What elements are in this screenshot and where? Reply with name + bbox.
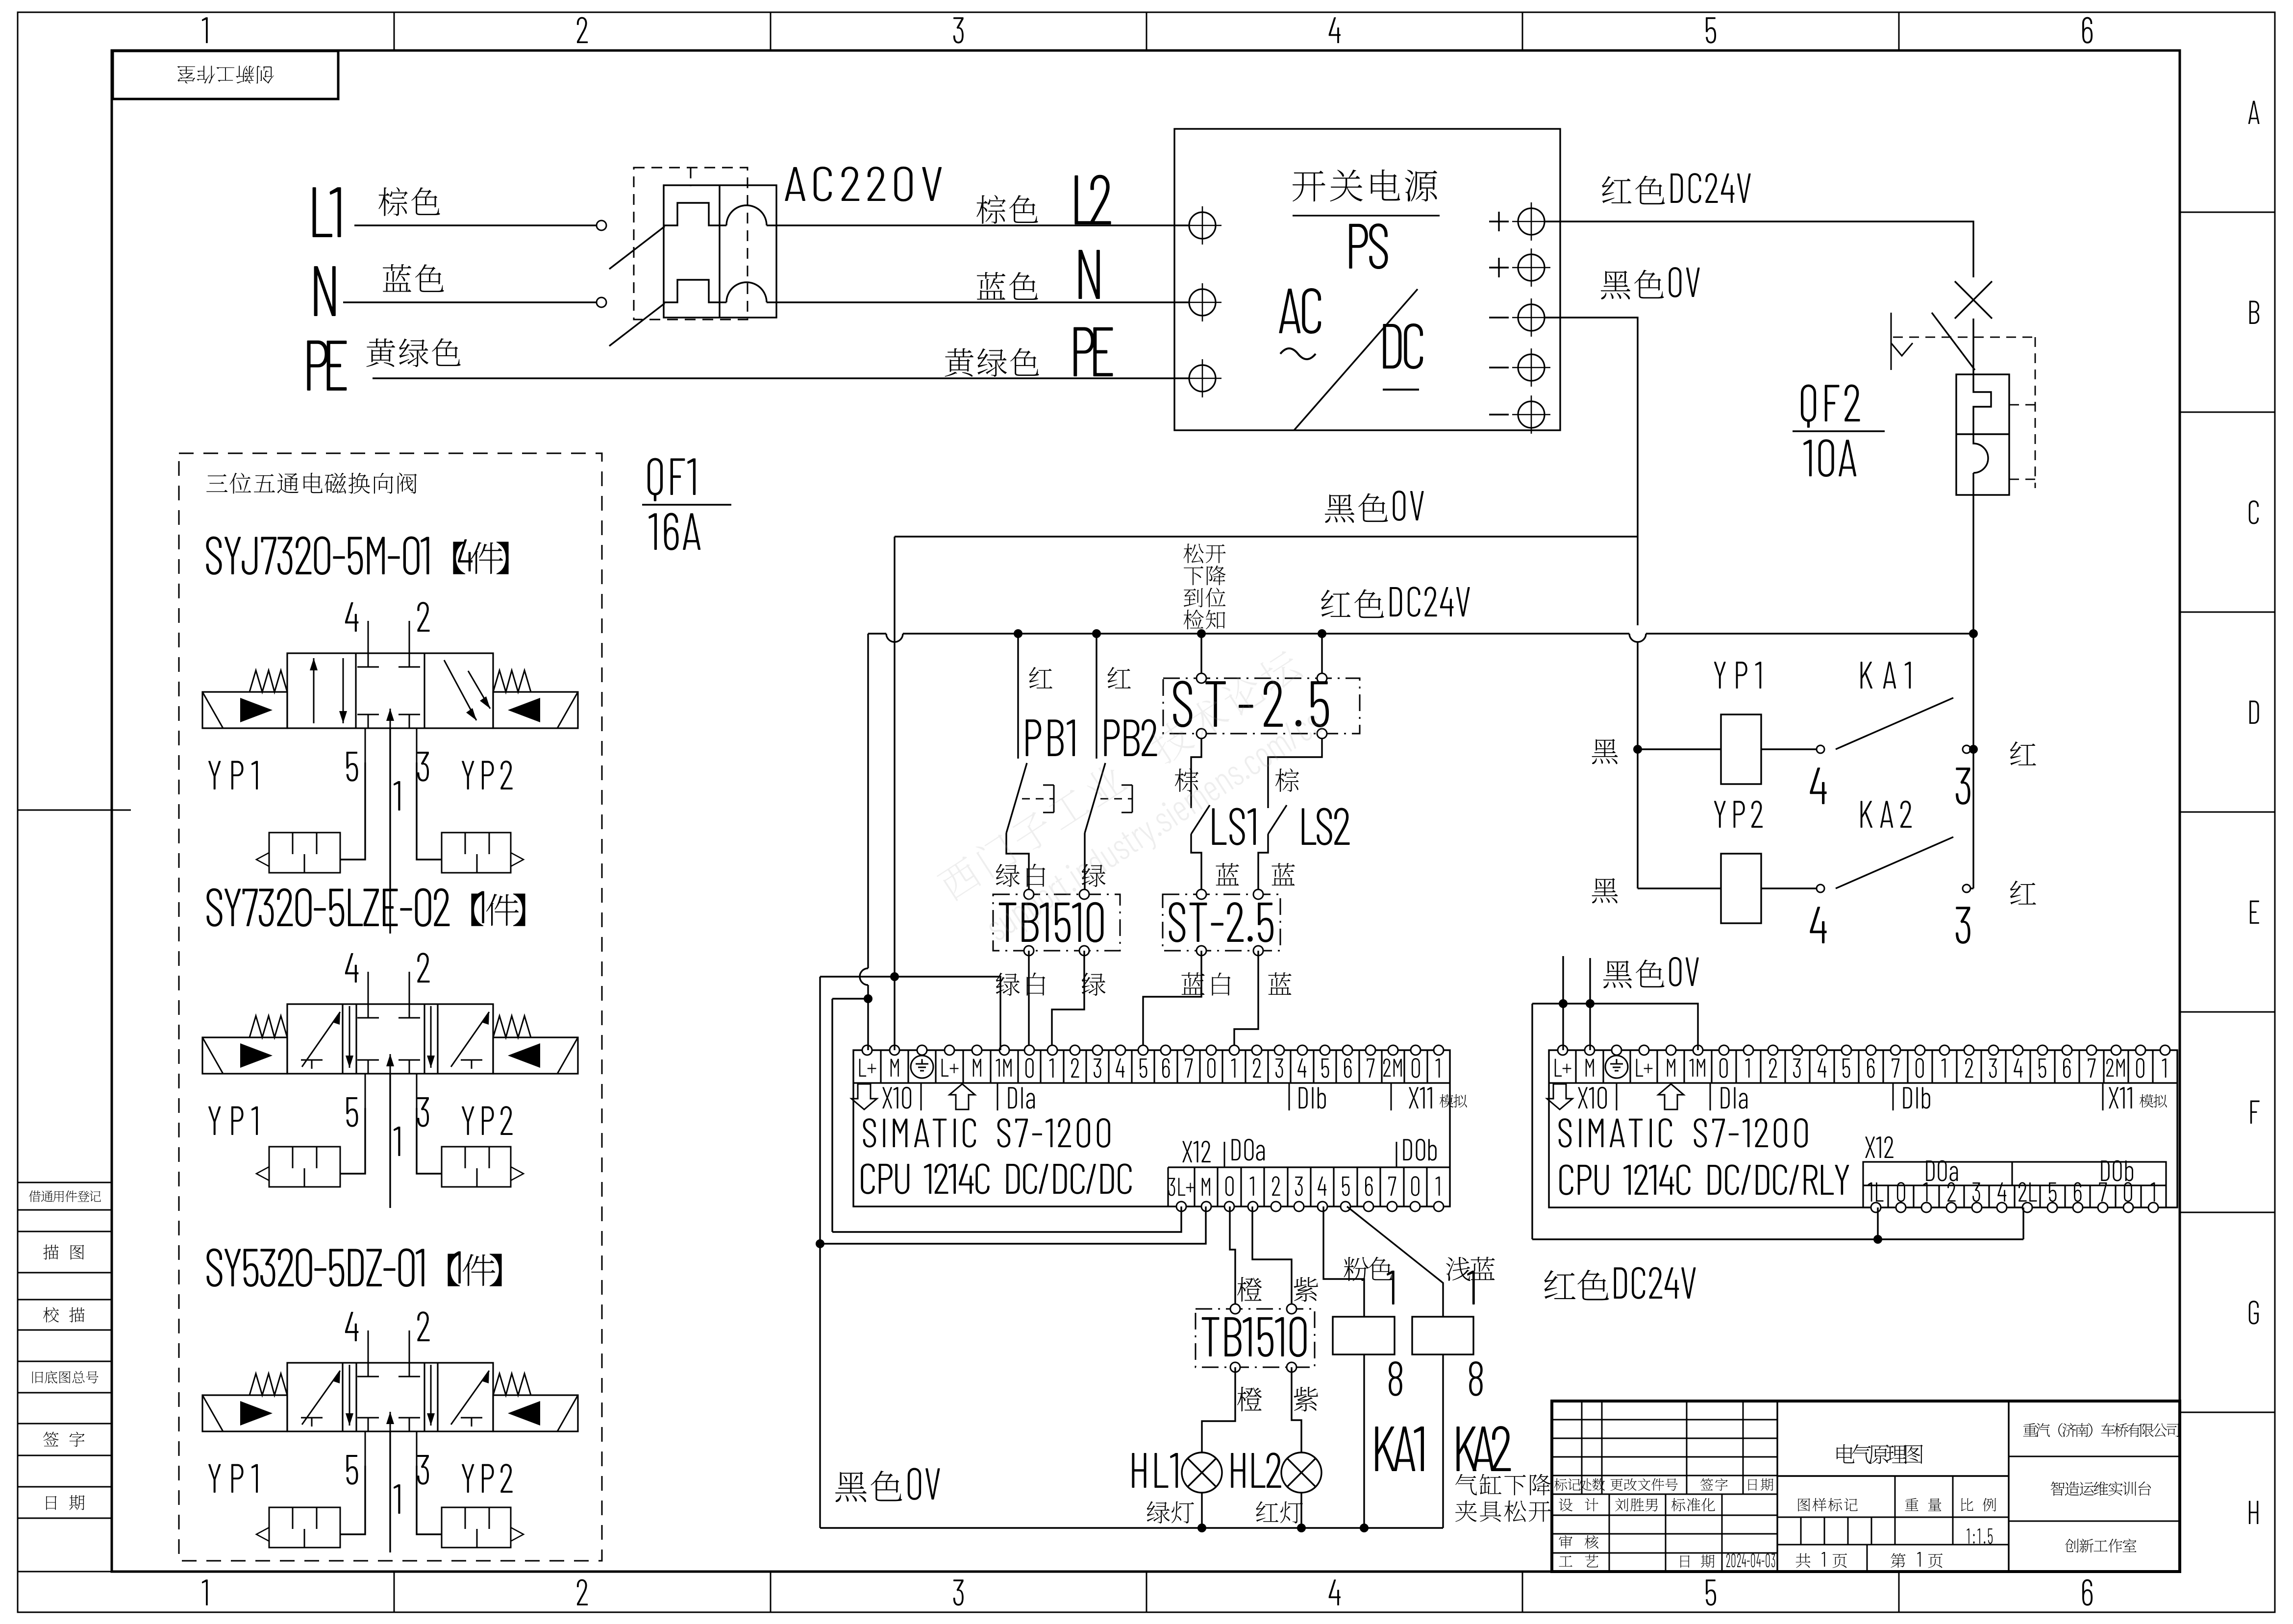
breaker QF1 input terminal N bbox=[597, 297, 606, 307]
wire 0V to U2 1M bbox=[1532, 1004, 1698, 1050]
wire DOa5 to relay KA2 diagonal bbox=[1347, 1206, 1443, 1317]
valve main boxes bbox=[287, 653, 493, 728]
valve solenoid left bbox=[202, 1395, 287, 1431]
valve solenoid right bbox=[493, 1395, 578, 1431]
valve pilot connections bbox=[340, 1108, 365, 1174]
labels light-blue 1 bbox=[1446, 1257, 1471, 1281]
valve pilot box left bbox=[269, 833, 340, 873]
breaker QF1 magnetic element pole2 bbox=[726, 282, 767, 302]
breaker QF1 blade pole1 bbox=[609, 226, 665, 269]
valve right box flow arrows bbox=[444, 660, 476, 720]
label red DC24V bottom right bbox=[1544, 1270, 1575, 1299]
node N label at PS bbox=[1078, 250, 1099, 299]
wire DOa1 to TB1510 bottom right bbox=[1252, 1206, 1292, 1309]
wire M feed (vertical B) bbox=[894, 956, 895, 1050]
node PE label bbox=[307, 341, 328, 391]
wire L1 brown bbox=[354, 224, 597, 226]
wire PB1 drop + label red bbox=[1017, 634, 1019, 759]
valve group dashed enclosure bbox=[179, 453, 602, 1561]
wire 0V bottom rail bbox=[820, 1527, 1443, 1528]
label column 松开下降到位检知 bbox=[1183, 543, 1203, 563]
node N label bbox=[314, 266, 336, 316]
label black 0V top bbox=[1601, 271, 1631, 299]
label black 0V mid bbox=[1325, 494, 1355, 522]
PLC U2 X10 label row bbox=[1547, 1084, 1572, 1109]
left margin fold mark bbox=[18, 810, 131, 811]
valve pilot box right bbox=[442, 833, 511, 873]
PS title 开关电源 / PS bbox=[1293, 171, 1325, 201]
wire TB1510 to DIa1 bbox=[1052, 951, 1084, 1050]
valve pilot box right bbox=[442, 1147, 511, 1187]
limit switch LS2 bbox=[1268, 738, 1322, 808]
breaker QF1 magnetic element pole1 bbox=[726, 205, 767, 225]
breaker QF2 element box bbox=[1956, 374, 2009, 495]
PLC U1 X12 / DOa / DOb labels bbox=[1182, 1141, 1192, 1162]
breaker QF1 thermal element pole1 bbox=[664, 203, 720, 225]
relay row YP2/KA2 bbox=[1638, 887, 1721, 889]
wire 0V down-left bbox=[894, 537, 895, 956]
valve pilot connections bbox=[340, 763, 365, 860]
breaker QF2 thermal profile bbox=[1973, 374, 1991, 434]
breaker QF1 dashed enclosure bbox=[634, 168, 748, 320]
wire red rail to ST upper pins bbox=[1200, 634, 1202, 673]
relay row YP1/KA1 bbox=[1638, 748, 1721, 750]
valve spring left bbox=[249, 670, 287, 692]
limit switch LS1 bbox=[1191, 738, 1201, 808]
relay coil KA2 bbox=[1412, 1317, 1473, 1354]
wire +24V to QF2 bbox=[1545, 221, 1973, 277]
wire L2 brown bbox=[776, 224, 1189, 226]
breaker QF1 blade pole2 bbox=[609, 303, 665, 346]
wire 3L+ loop bbox=[832, 1206, 1181, 1232]
power supply PS box bbox=[1174, 129, 1560, 430]
title block signature rows bbox=[1552, 1515, 1777, 1516]
PLC U1 X12 output strip bbox=[1168, 1166, 1450, 1168]
valve pilot box left bbox=[269, 1147, 340, 1187]
junction dots on red rail bbox=[1014, 629, 1022, 638]
valve YP labels bbox=[208, 761, 221, 789]
labels green white green above TB1510 bbox=[996, 864, 1020, 887]
breaker QF1 contact box bbox=[664, 185, 776, 318]
left margin label boxes bbox=[18, 1182, 112, 1210]
labels blue above ST lower bbox=[1216, 863, 1239, 886]
label QF2 / 10A bbox=[1801, 385, 1816, 428]
wire red DC24V rail with hops bbox=[868, 633, 886, 634]
terminal block TB1510 mid bbox=[993, 894, 1120, 951]
wire QF2 down to DC24V rail bbox=[1972, 495, 1974, 634]
terminal block TB1510 bottom bbox=[1196, 1309, 1315, 1367]
zone number strip bottom bbox=[394, 1572, 395, 1612]
valve pilot box right bbox=[442, 1507, 511, 1548]
valve YP labels bbox=[208, 1464, 221, 1493]
title block revision rows bbox=[1552, 1419, 1777, 1421]
PLC U2 terminal row bbox=[1549, 1082, 2177, 1083]
PS DC label bbox=[1383, 324, 1401, 369]
wire QF2 vertical to rows bbox=[1972, 634, 1974, 888]
valve solenoid left bbox=[202, 1037, 287, 1074]
valve ports 4 2 top bbox=[368, 621, 369, 653]
PS AC/DC separator bbox=[1294, 289, 1418, 430]
PS polarity signs bbox=[1489, 221, 1509, 222]
wire ST lower to DIb1 bbox=[1234, 951, 1258, 1050]
node L2 label bbox=[1074, 175, 1094, 224]
pushbutton PB2 bbox=[1104, 719, 1120, 756]
labels green white green below TB1510 bbox=[996, 973, 1020, 996]
breaker QF1 thermal element pole2 bbox=[664, 280, 720, 302]
valve left box flow arrows bbox=[313, 658, 315, 723]
zone letter strip right bbox=[2180, 212, 2275, 213]
PLC U2 model text bbox=[1559, 1118, 1572, 1148]
wire DOa4 to relay KA1 bbox=[1323, 1206, 1364, 1317]
PS AC~ label bbox=[1279, 289, 1300, 333]
valve inter-wall down arrows bbox=[349, 1006, 350, 1068]
watermark bbox=[935, 646, 1339, 957]
valve right box flow arrow diag bbox=[451, 1012, 489, 1067]
breaker QF2 magnetic profile bbox=[1973, 434, 1988, 473]
PLC U1 terminal row bbox=[853, 1082, 1450, 1083]
wire L+ feed (vertical A) with hop bbox=[867, 634, 869, 968]
valve ports 5 1 3 bottom bbox=[365, 728, 366, 763]
valve port1 up arrow bbox=[390, 1412, 391, 1431]
valve left box flow arrow diag bbox=[302, 1012, 340, 1067]
valve YP labels bbox=[208, 1107, 221, 1135]
labels blue white blue below ST lower bbox=[1181, 972, 1204, 995]
valve middle box blocked ports bbox=[368, 653, 369, 667]
label AC220V bbox=[785, 167, 805, 201]
valve V2 model SY7320-5LZE-02 bbox=[206, 888, 222, 927]
title block outer bbox=[1552, 1401, 2180, 1572]
lamp HL1 bbox=[1132, 1453, 1146, 1488]
label red DC24V mid bbox=[1321, 590, 1350, 616]
label black 0V above U2 bbox=[1603, 960, 1632, 988]
valve solenoid left bbox=[202, 692, 287, 728]
PLC U1 model text bbox=[863, 1118, 876, 1148]
wire black 0V rail bbox=[895, 536, 1638, 537]
PLC U1 SIMATIC S7-1200 DC/DC/DC body bbox=[853, 1050, 1450, 1206]
lamp HL2 bbox=[1231, 1453, 1245, 1488]
breaker QF2 blade bbox=[1932, 313, 1975, 370]
valve middle box blocked ports bbox=[368, 1004, 369, 1018]
wire X12 M to 0V bbox=[820, 1206, 1206, 1244]
labels pink 1 bbox=[1344, 1257, 1369, 1281]
valve main boxes bbox=[287, 1004, 493, 1074]
valve V1 model SYJ7320-5M-01 bbox=[206, 537, 222, 575]
breaker QF2 dashed linkage bbox=[1893, 337, 2035, 338]
valve solenoid right bbox=[493, 1037, 578, 1074]
wire PE yellow-green bbox=[373, 377, 1189, 379]
PLC U1 X10 label row bbox=[851, 1084, 877, 1109]
relay coil KA1 bbox=[1333, 1317, 1395, 1354]
breaker QF2 actuator bbox=[1891, 313, 1892, 370]
wire 0V vertical right bbox=[1637, 537, 1638, 625]
wire U2 bottom rail to 1L/2L bbox=[1532, 1238, 2023, 1240]
valve spring right bbox=[493, 670, 531, 692]
valve spring left bbox=[249, 1374, 287, 1395]
valve right box flow arrow diag bbox=[451, 1371, 489, 1425]
wire PB2 drop + label red bbox=[1096, 634, 1097, 759]
label black 0V bottom left bbox=[835, 1472, 867, 1502]
title box top-left (rotated 创新工作室) bbox=[113, 51, 338, 99]
wire TB1510 to DIa0 bbox=[1028, 951, 1029, 1050]
valve left box flow arrow diag bbox=[302, 1371, 340, 1425]
wire to 3L+ horizontal2 bbox=[832, 998, 868, 999]
wire 0V horizontal to 1M bbox=[820, 977, 1000, 1050]
PS terminals R bbox=[1518, 208, 1545, 235]
valve ports 4 2 top bbox=[368, 1330, 369, 1363]
terminal block ST-2.5 upper bbox=[1163, 678, 1360, 734]
PS terminal L bbox=[1189, 212, 1216, 239]
valve ports 5 1 3 bottom bbox=[365, 1431, 366, 1466]
wire U2 left loop down bbox=[1531, 1004, 1533, 1239]
valve port1 up arrow bbox=[390, 709, 391, 728]
breaker QF1 input terminal L1 bbox=[597, 221, 606, 230]
title block middle section bbox=[1777, 1475, 2009, 1476]
wire DOa0 to TB1510 bottom bbox=[1230, 1206, 1235, 1309]
valve ports 4 2 top bbox=[368, 972, 369, 1004]
title block company section bbox=[2009, 1456, 2180, 1457]
valve V1 title bbox=[206, 474, 227, 492]
label cylinder annotation bbox=[1455, 1474, 1477, 1496]
PLC U2 SIMATIC S7-1200 DC/DC/RLY body bbox=[1549, 1050, 2177, 1207]
breaker QF2 disconnect X mark bbox=[1955, 281, 1992, 319]
terminal block ST-2.5 lower bbox=[1163, 894, 1280, 951]
PLC U2 X12 output strip bbox=[1863, 1162, 2166, 1207]
valve port1 up arrow bbox=[390, 1054, 391, 1074]
wire ST lower to DIa5 bbox=[1143, 951, 1201, 1050]
wire to lamp HL1 bbox=[1202, 1367, 1235, 1452]
wire N blue to PS bbox=[776, 301, 1189, 303]
valve spring right bbox=[493, 1374, 531, 1395]
pushbutton PB1 bbox=[1026, 719, 1042, 756]
valve spring left bbox=[249, 1016, 287, 1037]
valve spring right bbox=[493, 1016, 531, 1037]
valve main boxes bbox=[287, 1363, 493, 1431]
valve pilot connections bbox=[340, 1466, 365, 1534]
wire to lamp HL2 bbox=[1292, 1367, 1301, 1452]
valve pilot box left bbox=[269, 1507, 340, 1548]
valve inter-wall down arrows bbox=[349, 1365, 350, 1426]
labels orange purple above TB1510 bbox=[1237, 1277, 1262, 1302]
node L1 label bbox=[313, 187, 332, 237]
valve ports 5 1 3 bottom bbox=[365, 1074, 366, 1108]
labels orange purple below TB1510 bbox=[1237, 1387, 1262, 1411]
node PE label at PS bbox=[1073, 327, 1094, 376]
valve middle box blocked ports bbox=[368, 1363, 369, 1377]
valve V3 model SY5320-5DZ-01 bbox=[206, 1249, 222, 1287]
valve solenoid right bbox=[493, 692, 578, 728]
label QF1 / 16A bbox=[648, 458, 663, 501]
zone number strip top bbox=[394, 12, 395, 50]
PLC U2 feed stubs L+ M bbox=[1562, 956, 1564, 1050]
wire left verticals bbox=[819, 977, 821, 1528]
wire N blue bbox=[343, 301, 597, 303]
wire 0V from PS bbox=[1545, 318, 1638, 537]
label red DC24V top bbox=[1602, 176, 1631, 203]
